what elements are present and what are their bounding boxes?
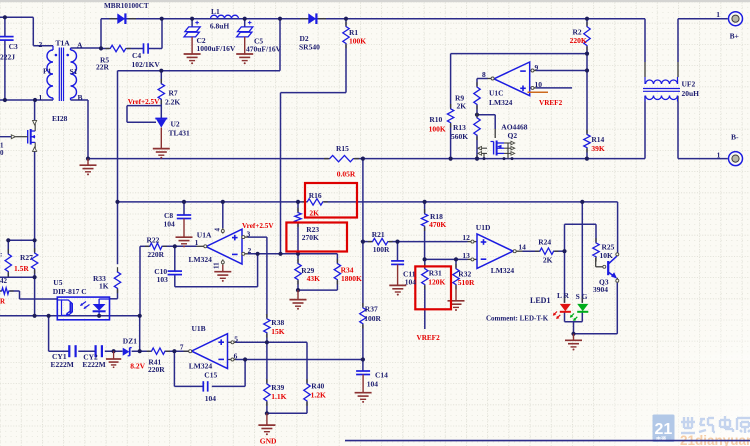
svg-text:LM324: LM324 [189,255,213,264]
svg-text:2: 2 [248,246,252,255]
svg-text:LM324: LM324 [491,266,515,275]
svg-text:20uH: 20uH [682,89,700,98]
svg-text:R24: R24 [538,237,551,246]
svg-text:P1: P1 [43,67,52,76]
svg-text:SR540: SR540 [299,42,320,51]
svg-text:120K: 120K [428,277,445,286]
svg-text:9: 9 [535,63,539,72]
svg-text:U1A: U1A [197,230,212,239]
svg-text:U1D: U1D [476,223,491,232]
svg-text:14: 14 [518,243,526,252]
svg-text:1: 1 [39,93,43,102]
svg-text:VREF2: VREF2 [539,99,563,107]
svg-text:R40: R40 [311,382,324,391]
svg-text:100R: 100R [364,314,381,323]
svg-text:R13: R13 [453,123,466,132]
svg-text::: : [0,251,2,259]
svg-text:104: 104 [367,380,379,389]
svg-text:1: 1 [195,238,199,247]
svg-text:R37: R37 [365,305,378,314]
svg-text:1: 1 [717,150,721,159]
svg-text:39K: 39K [591,144,605,153]
svg-text:R16: R16 [309,191,322,200]
svg-text:LED1: LED1 [530,296,550,305]
svg-text:Vref+2.5V: Vref+2.5V [128,98,160,106]
svg-text:100R: 100R [373,245,390,254]
svg-text:C15: C15 [204,371,217,380]
svg-text:R21: R21 [372,230,385,239]
svg-text:8: 8 [482,70,486,79]
svg-text:A: A [77,41,83,50]
svg-text:43K: 43K [307,274,321,283]
svg-text:U1C: U1C [489,89,504,98]
svg-text:11: 11 [213,262,221,269]
svg-text:21dianyuan.c: 21dianyuan.c [680,433,750,446]
svg-text:E222M: E222M [82,360,105,369]
svg-text:C4: C4 [132,51,141,60]
svg-text:C3: C3 [9,42,18,51]
svg-text:DIP-817 C: DIP-817 C [53,287,87,296]
svg-text:10: 10 [535,80,543,89]
svg-text:L R: L R [557,291,569,300]
svg-text:MBR10100CT: MBR10100CT [104,2,149,10]
svg-text:2.2K: 2.2K [165,97,180,106]
svg-text:22R: 22R [96,63,110,72]
svg-text:R10: R10 [429,115,442,124]
svg-text:1.1K: 1.1K [271,392,286,401]
svg-text:560K: 560K [451,132,468,141]
svg-text:0.05R: 0.05R [337,169,356,178]
svg-text:U5: U5 [53,278,62,287]
svg-text:GND: GND [260,437,277,446]
svg-text:L1: L1 [211,7,220,16]
svg-text:102/1KV: 102/1KV [132,60,161,69]
svg-text:104: 104 [164,220,176,229]
svg-text:B-: B- [731,132,739,141]
svg-text:R22: R22 [147,236,160,245]
svg-text:电源: 电源 [656,436,666,443]
svg-text:10K: 10K [600,251,614,260]
svg-text:U1B: U1B [192,324,206,333]
svg-text:R27: R27 [20,253,33,262]
svg-text:6: 6 [234,351,238,360]
svg-text:2: 2 [39,40,43,49]
svg-text:2K: 2K [309,209,319,218]
svg-text:B: B [78,93,83,102]
svg-text:13: 13 [462,251,470,260]
svg-text:510R: 510R [458,278,475,287]
svg-text:4: 4 [214,228,222,232]
svg-text:1800K: 1800K [341,274,362,283]
svg-text:2K: 2K [457,102,467,111]
svg-text:C14: C14 [375,370,388,379]
svg-text:TL431: TL431 [169,129,191,138]
svg-text:3: 3 [247,229,251,238]
svg-text:7: 7 [180,343,184,352]
svg-text:3904: 3904 [593,285,608,294]
svg-text:B+: B+ [730,31,739,40]
svg-text:DZ1: DZ1 [123,337,137,346]
svg-text:R31: R31 [429,268,442,277]
svg-text:LM324: LM324 [189,361,213,370]
svg-text:UF2: UF2 [682,80,696,89]
svg-text:T1A: T1A [56,39,71,48]
svg-text:6.8uH: 6.8uH [210,22,230,31]
svg-text:21: 21 [655,421,673,438]
svg-text:R2: R2 [573,27,582,36]
svg-text:EI28: EI28 [52,114,68,123]
svg-text:1: 1 [716,10,720,19]
svg-text:R15: R15 [336,144,349,153]
svg-text:VREF2: VREF2 [417,334,441,342]
svg-text:S1: S1 [70,67,78,76]
svg-text:270K: 270K [302,233,319,242]
svg-text:S G: S G [576,292,588,301]
svg-text:R39: R39 [271,383,284,392]
svg-text:R1: R1 [349,28,358,37]
svg-text:103: 103 [157,275,169,284]
svg-text:Q2: Q2 [508,131,518,140]
svg-text:U2: U2 [171,120,180,129]
svg-text:8.2V: 8.2V [130,361,145,370]
svg-text:222J: 222J [0,53,15,62]
svg-text:100K: 100K [349,37,366,46]
svg-text:Comment: LED-T-K: Comment: LED-T-K [486,315,549,323]
svg-text:104: 104 [205,394,217,403]
svg-text:R7: R7 [169,89,178,98]
svg-text:1.2K: 1.2K [311,391,326,400]
svg-text:0: 0 [0,149,4,157]
svg-text:1K: 1K [99,282,109,291]
svg-text:100K: 100K [429,124,446,133]
svg-text:42: 42 [0,277,8,285]
svg-text:15K: 15K [271,327,285,336]
svg-text:R38: R38 [271,318,284,327]
svg-text:104: 104 [405,277,417,286]
svg-text:5: 5 [234,334,238,343]
svg-text:470K: 470K [429,220,446,229]
svg-text:1000uF/16V: 1000uF/16V [197,44,236,53]
svg-text:220R: 220R [148,365,165,374]
svg-text:R25: R25 [602,242,615,251]
svg-text:LM324: LM324 [489,98,513,107]
svg-text:2K: 2K [543,255,553,264]
svg-text:220K: 220K [570,36,587,45]
svg-text:12: 12 [462,233,470,242]
svg-text:470uF/16V: 470uF/16V [246,45,282,54]
svg-text:E222M: E222M [51,360,74,369]
svg-text:220R: 220R [147,250,164,259]
svg-text:1.5R: 1.5R [14,264,29,273]
